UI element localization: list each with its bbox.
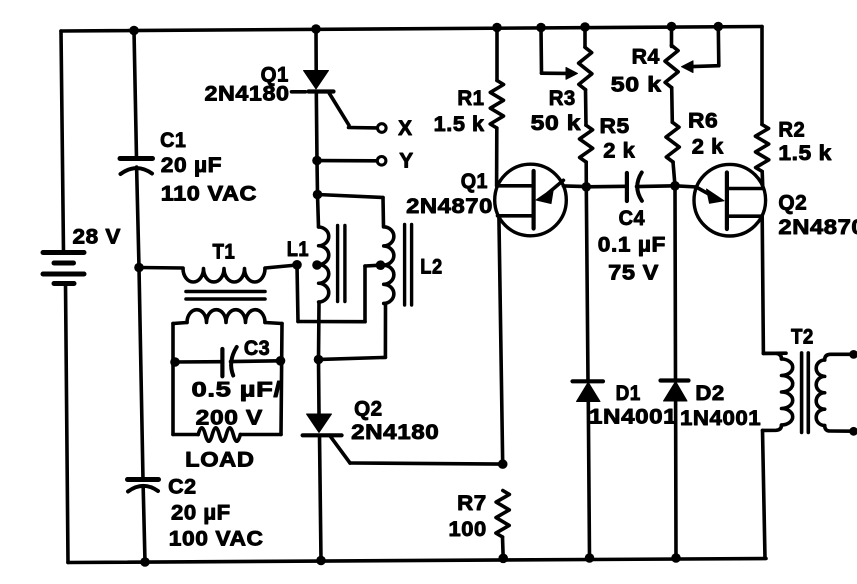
svg-text:50 k: 50 k (531, 112, 581, 135)
svg-text:T1: T1 (213, 241, 236, 264)
svg-text:28 V: 28 V (73, 226, 122, 249)
svg-text:R5: R5 (600, 115, 630, 138)
svg-text:C1: C1 (160, 129, 186, 152)
svg-text:1.5 k: 1.5 k (778, 142, 832, 165)
svg-text:2N4180: 2N4180 (351, 421, 439, 444)
svg-text:Q2: Q2 (778, 192, 807, 215)
svg-text:20 µF: 20 µF (161, 154, 222, 177)
svg-text:2N4870: 2N4870 (406, 195, 493, 218)
svg-text:R7: R7 (457, 492, 487, 515)
svg-text:R3: R3 (549, 87, 576, 110)
svg-text:2N4870: 2N4870 (778, 216, 857, 239)
svg-text:2N4180: 2N4180 (205, 82, 290, 105)
svg-text:1N4001: 1N4001 (589, 406, 677, 429)
svg-text:R6: R6 (688, 109, 718, 132)
svg-text:LOAD: LOAD (185, 448, 254, 471)
svg-text:50 k: 50 k (611, 74, 662, 97)
svg-text:2 k: 2 k (692, 136, 724, 159)
svg-text:Q2: Q2 (354, 398, 383, 421)
svg-text:0.1 µF: 0.1 µF (598, 234, 666, 257)
svg-text:Y: Y (399, 150, 413, 173)
svg-text:200 V: 200 V (196, 406, 263, 429)
svg-text:R2: R2 (778, 119, 805, 142)
svg-text:0.5 µF/: 0.5 µF/ (192, 379, 282, 402)
svg-text:75 V: 75 V (608, 261, 659, 284)
svg-text:110 VAC: 110 VAC (161, 182, 257, 205)
svg-text:1.5 k: 1.5 k (434, 113, 485, 136)
svg-text:T2: T2 (791, 326, 814, 349)
svg-text:1N4001: 1N4001 (680, 407, 761, 430)
svg-text:L2: L2 (420, 256, 442, 279)
svg-text:C2: C2 (168, 475, 197, 498)
svg-text:2 k: 2 k (603, 140, 635, 163)
svg-text:D1: D1 (616, 382, 641, 405)
svg-text:C4: C4 (619, 207, 646, 230)
svg-text:100: 100 (449, 518, 487, 541)
svg-text:C3: C3 (244, 337, 270, 360)
svg-text:20 µF: 20 µF (171, 502, 231, 525)
svg-text:L1: L1 (287, 238, 309, 261)
svg-text:Q1: Q1 (461, 170, 488, 193)
svg-text:R1: R1 (457, 87, 484, 110)
svg-text:D2: D2 (695, 382, 724, 405)
svg-text:100 VAC: 100 VAC (169, 528, 264, 551)
svg-text:R4: R4 (632, 45, 660, 68)
svg-text:X: X (398, 117, 412, 140)
